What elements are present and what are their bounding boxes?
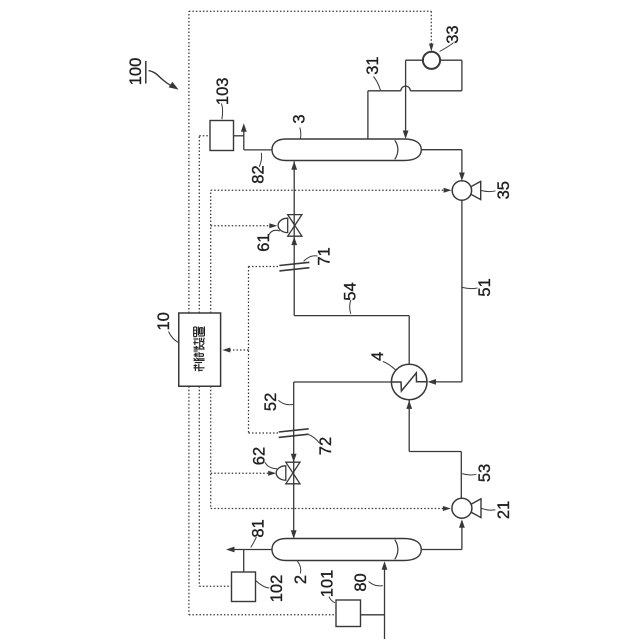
svg-text:3: 3 [291, 114, 309, 123]
svg-text:80: 80 [352, 573, 370, 591]
svg-text:35: 35 [495, 181, 513, 199]
svg-text:52: 52 [262, 393, 280, 411]
svg-text:72: 72 [317, 437, 335, 455]
svg-text:101: 101 [319, 570, 337, 598]
svg-text:4: 4 [369, 352, 387, 361]
svg-text:103: 103 [214, 78, 232, 106]
svg-text:81: 81 [250, 519, 268, 537]
svg-text:2: 2 [292, 575, 310, 584]
svg-text:31: 31 [364, 56, 382, 74]
svg-text:33: 33 [444, 25, 462, 43]
svg-text:102: 102 [268, 575, 286, 603]
svg-text:82: 82 [250, 165, 268, 183]
svg-text:71: 71 [316, 247, 334, 265]
svg-text:62: 62 [251, 447, 269, 465]
svg-text:53: 53 [476, 464, 494, 482]
svg-text:54: 54 [341, 282, 359, 300]
svg-text:10: 10 [155, 312, 173, 330]
svg-text:61: 61 [255, 233, 273, 251]
svg-text:51: 51 [476, 278, 494, 296]
svg-text:100: 100 [127, 58, 145, 86]
svg-text:21: 21 [495, 501, 513, 519]
